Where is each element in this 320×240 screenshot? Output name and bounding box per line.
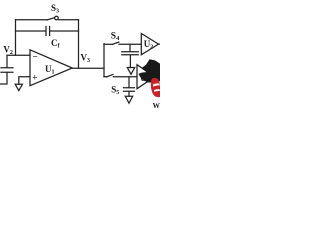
wire top to switch S3 (16, 19, 48, 21)
ground U1 plus (15, 84, 22, 90)
switch S4 (112, 42, 119, 44)
svg-text:V2: V2 (3, 44, 13, 56)
watermark red logo inner (153, 83, 160, 86)
svg-text:V3: V3 (81, 52, 91, 64)
wire to switch S5 (104, 76, 107, 78)
wire S5 to U3 (113, 76, 137, 78)
wire Cf branch left (16, 30, 46, 32)
wire junction vertical (103, 44, 105, 77)
capacitor hold top (122, 44, 139, 67)
watermark band (139, 72, 161, 82)
wire Cf branch right (50, 30, 79, 32)
op-amp U3 (137, 65, 155, 89)
svg-text:Cf: Cf (51, 38, 61, 50)
svg-text:U1: U1 (45, 64, 55, 76)
capacitor V2 source (1, 55, 14, 84)
capacitor hold bottom (124, 77, 135, 97)
wire S3 to right vertical (58, 19, 78, 21)
svg-text:S3: S3 (51, 3, 59, 15)
wire feedback left vertical (15, 20, 17, 56)
svg-text:U2: U2 (144, 39, 154, 51)
wire S4 to U2 (119, 43, 141, 45)
watermark red logo (151, 78, 160, 97)
wire U1 plus input (19, 77, 30, 85)
wire V2 input (7, 54, 30, 56)
svg-text:S4: S4 (111, 32, 120, 43)
wire feedback right vertical (78, 20, 80, 68)
svg-text:S5: S5 (111, 84, 119, 96)
op-amp U2 (141, 34, 158, 55)
capacitor Cf (46, 27, 50, 36)
wire U2 output (159, 43, 161, 45)
ground top cap (127, 68, 134, 75)
watermark red logo inner 2 (154, 89, 160, 92)
wire U1 output (72, 67, 104, 69)
svg-text:W: W (153, 101, 161, 110)
switch S5 (107, 74, 114, 77)
svg-text:−: − (33, 51, 38, 61)
wire to switch S4 (104, 43, 112, 45)
op-amp U1 (30, 50, 72, 86)
svg-text:+: + (32, 73, 37, 83)
ground bottom cap (125, 96, 132, 103)
switch S3 (47, 18, 55, 20)
watermark mortarboard (141, 59, 160, 80)
